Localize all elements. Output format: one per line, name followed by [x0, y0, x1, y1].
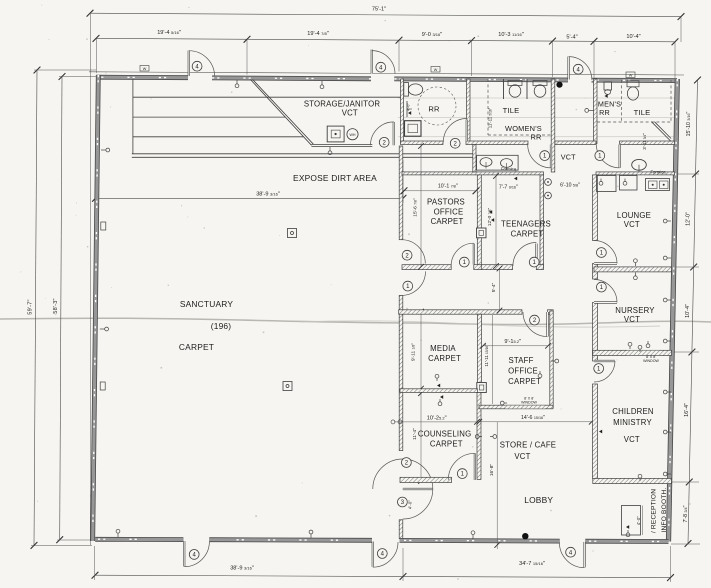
svg-text:Formica: Formica: [650, 170, 666, 175]
svg-text:10'-4": 10'-4": [685, 304, 691, 318]
svg-text:16'-4": 16'-4": [684, 403, 690, 417]
sanctuary east wall upper: [399, 146, 403, 240]
sanctuary east wall middle: [399, 295, 403, 450]
mens toilet: [627, 81, 639, 87]
right wall stems: [667, 220, 671, 222]
media-staff divider wall: [478, 314, 482, 382]
staff window symbol: [505, 404, 545, 406]
nursery-children divider wall: [593, 350, 672, 355]
svg-text:SANCTUARY: SANCTUARY: [180, 299, 234, 309]
RR west wall: [401, 79, 404, 144]
faint streak lines: [398, 97, 676, 99]
left dim connectors: [34, 69, 96, 71]
corridor south wall: [402, 172, 544, 175]
children stems: [639, 349, 641, 352]
svg-text:VCT: VCT: [561, 153, 576, 162]
drinking fountains: [545, 179, 552, 186]
corridor vertical dim 5-4: [499, 269, 501, 311]
womens lavatory counter: [477, 155, 518, 170]
lounge-nursery divider wall: [594, 267, 672, 272]
svg-text:CARPET: CARPET: [179, 342, 214, 352]
teen vertical dim 12-0 7/8: [495, 176, 497, 266]
svg-text:9'-15.2": 9'-15.2": [504, 339, 521, 345]
door 2 staff office: [546, 312, 548, 337]
storage stripe 2: [133, 116, 285, 118]
mop sink in storage: [327, 126, 344, 142]
svg-text:CARPET: CARPET: [431, 217, 464, 226]
sanctuary east wall lower: [399, 520, 403, 539]
stem symbol top wall: [321, 81, 323, 85]
svg-text:RR: RR: [599, 108, 610, 117]
lounge wall stems: [600, 179, 602, 182]
lounge counters: [597, 176, 617, 192]
storage bottom wall: [312, 143, 373, 145]
media bottom wall: [400, 389, 478, 393]
bottom extension lines: [94, 546, 96, 580]
window tag W left: [140, 66, 149, 72]
svg-text:VCT: VCT: [624, 220, 640, 229]
staff vertical dim 11-11 15/16: [492, 315, 494, 404]
children west flag: [599, 430, 602, 434]
left wall fixture 1: [101, 222, 106, 230]
left wall fixture 2: [100, 382, 105, 390]
womens tile dashed boundary: [487, 79, 489, 135]
left dimension line 58-3: [60, 77, 62, 540]
reception dim 4-0: [642, 506, 644, 536]
storage stripe 3: [133, 136, 304, 138]
svg-text:WINDOW: WINDOW: [643, 359, 659, 363]
door 1 pastors with arc: [473, 244, 475, 265]
bottom exterior wall: [95, 537, 183, 542]
svg-text:CARPET: CARPET: [508, 377, 541, 386]
top dimension chain line: [96, 38, 675, 41]
svg-text:9'-11 1/8": 9'-11 1/8": [411, 343, 417, 361]
vertical dim chain x421: [420, 146, 422, 267]
svg-text:CARPET: CARPET: [428, 354, 461, 363]
svg-text:STORAGE/JANITOR: STORAGE/JANITOR: [304, 100, 381, 109]
svg-text:CARPET: CARPET: [430, 440, 463, 449]
svg-text:(196): (196): [211, 321, 232, 331]
svg-text:CHILDREN: CHILDREN: [612, 407, 653, 416]
svg-text:RR: RR: [530, 133, 541, 142]
stem symbol platform: [329, 147, 331, 151]
svg-text:VCT: VCT: [342, 109, 358, 118]
pastors east wall lower: [477, 238, 481, 267]
lounge double sink: [646, 179, 670, 191]
staff bottom wall: [479, 405, 553, 409]
svg-text:COUNSELING: COUNSELING: [418, 430, 472, 439]
svg-text:5'-4": 5'-4": [491, 282, 497, 292]
teen flags: [489, 210, 492, 214]
svg-text:/ RECEPTION: / RECEPTION: [651, 489, 658, 533]
svg-text:12'-0": 12'-0": [686, 212, 692, 226]
RR grab bars: [406, 101, 408, 117]
reception desk: [622, 506, 641, 536]
bottom wall stems: [117, 533, 119, 537]
media keynote flags: [437, 384, 440, 388]
scan crease across middle: [0, 318, 711, 324]
corridor lavatory oval: [632, 159, 647, 170]
counseling stems: [479, 436, 482, 438]
door 1 teenagers with arc: [535, 244, 537, 265]
mens tile dashed boundary: [621, 80, 623, 122]
door 1 children: [594, 360, 615, 362]
reception stem: [627, 530, 629, 533]
door 1 mens RR: [619, 145, 621, 168]
platform edge band: [132, 153, 473, 155]
black column at mens wall: [556, 82, 562, 88]
mens west wall: [594, 79, 598, 144]
svg-text:WINDOW: WINDOW: [521, 401, 537, 405]
RR turning circle dashed: [418, 87, 456, 125]
paper specks: [231, 91, 233, 93]
RR shower square: [405, 121, 422, 137]
vestibule jamb wall: [473, 145, 476, 172]
door 1 counseling: [474, 453, 476, 480]
svg-text:7'-7 9/16": 7'-7 9/16": [499, 184, 518, 190]
svg-text:NURSERY: NURSERY: [615, 306, 655, 315]
womens west wall: [467, 79, 471, 144]
svg-text:INFO BOOTH.: INFO BOOTH.: [661, 487, 668, 532]
svg-text:MEDIA: MEDIA: [430, 344, 456, 353]
left wall stem 1: [101, 149, 106, 151]
door 2 sanctuary to pastors: [402, 240, 426, 264]
lounge-nursery-children west wall: [593, 175, 598, 241]
svg-text:4'-0": 4'-0": [407, 102, 411, 111]
nursery mid stems: [647, 341, 649, 344]
svg-text:58'-3": 58'-3": [53, 298, 59, 313]
door 4 bottom-right lobby outswing: [583, 542, 585, 567]
mens corner diagonal: [651, 122, 671, 142]
svg-text:75'-1": 75'-1": [372, 7, 386, 13]
counseling bottom wall: [400, 477, 452, 482]
store vertical dim 16-8: [496, 422, 498, 549]
column media wall: [477, 383, 487, 393]
top exterior wall: [96, 75, 188, 80]
mens wall stem: [589, 109, 594, 111]
door 1 sanctuary to hall: [402, 271, 426, 295]
svg-text:15'-6 7/8": 15'-6 7/8": [412, 198, 418, 217]
svg-text:10'-4": 10'-4": [626, 34, 640, 40]
svg-text:WH: WH: [350, 133, 356, 137]
svg-text:TILE: TILE: [503, 106, 520, 115]
sanctuary column 1: [288, 229, 297, 238]
womens east wall: [551, 79, 555, 172]
store west wall: [477, 393, 481, 480]
svg-text:W: W: [143, 67, 147, 71]
teen east wall: [540, 175, 544, 267]
RR toilet: [404, 83, 409, 97]
bottom dimension line: [95, 575, 671, 577]
column pastors-teen wall: [477, 228, 487, 238]
left wall stem 2: [100, 328, 105, 330]
svg-text:STORE / CAFE: STORE / CAFE: [500, 441, 556, 450]
svg-text:MINISTRY: MINISTRY: [613, 418, 652, 427]
door 2 RR with arc: [466, 120, 468, 142]
door 4 top-middle with arc: [371, 50, 373, 74]
right extension stubs: [672, 173, 699, 175]
svg-text:W: W: [434, 68, 438, 72]
svg-text:TEENAGERS: TEENAGERS: [501, 220, 551, 229]
door 4 top-right with arc: [567, 57, 569, 80]
top wall fascia line: [89, 72, 684, 75]
pastors-teen bottom wall: [402, 265, 451, 270]
door 2 storage with arc: [393, 122, 395, 145]
door 4 top-left with arc: [188, 51, 190, 77]
water heater WH circle: [347, 129, 358, 140]
svg-text:11'-11 5/16": 11'-11 5/16": [488, 107, 493, 128]
svg-text:11'-11 15/16": 11'-11 15/16": [484, 344, 489, 367]
door 1 womens RR: [550, 145, 552, 168]
svg-text:PASTORS: PASTORS: [427, 198, 465, 207]
top overall dimension line 75-1: [90, 13, 681, 16]
top extension lines: [89, 13, 91, 545]
pastors east wall upper: [477, 175, 481, 228]
children window symbol: [627, 349, 660, 351]
svg-text:VCT: VCT: [624, 315, 640, 324]
svg-text:EXPOSE DIRT AREA: EXPOSE DIRT AREA: [293, 173, 377, 183]
corridor north wall: [401, 141, 444, 145]
door 3 sanctuary double swing: [403, 488, 433, 490]
keynote flag near womens counter: [514, 177, 517, 181]
svg-text:CARPET: CARPET: [511, 230, 544, 239]
sanctuary interior width dim 38-9 3/16: [96, 197, 404, 199]
storage diagonal wall: [250, 80, 311, 146]
svg-text:7'-8 3/4": 7'-8 3/4": [683, 505, 689, 522]
svg-text:VCT: VCT: [624, 435, 640, 444]
svg-text:W: W: [629, 74, 633, 78]
door 4 bottom-left outswing: [183, 541, 185, 567]
svg-text:OFFICE: OFFICE: [508, 367, 538, 376]
svg-text:OFFICE: OFFICE: [434, 208, 464, 217]
svg-text:STAFF: STAFF: [508, 356, 533, 365]
staff wall stem: [551, 360, 555, 362]
womens toilet 1: [508, 81, 522, 86]
svg-text:16'-8": 16'-8": [489, 464, 495, 477]
svg-text:4'-0": 4'-0": [408, 500, 413, 510]
storage area left boundary: [132, 80, 134, 154]
staff east wall: [550, 311, 553, 408]
bottom wall window dashes: [98, 538, 155, 540]
svg-text:3'-11 3/4": 3'-11 3/4": [642, 133, 647, 150]
svg-text:RR: RR: [428, 105, 440, 114]
svg-text:LOUNGE: LOUNGE: [617, 211, 651, 220]
left dimension line 59-7: [34, 70, 37, 545]
svg-text:59'-7": 59'-7": [28, 299, 34, 314]
womens toilet 2: [533, 81, 547, 86]
svg-text:5'-4": 5'-4": [566, 35, 577, 41]
black dot on bottom wall: [522, 533, 528, 539]
svg-text:LOBBY: LOBBY: [524, 495, 553, 505]
storage stripe 1: [133, 96, 401, 98]
svg-text:4'-0": 4'-0": [636, 516, 641, 526]
womens stall partitions: [503, 79, 505, 99]
nursery top wall stems: [634, 263, 636, 267]
corridor2 south wall media top: [399, 310, 522, 314]
svg-text:Formica: Formica: [501, 167, 517, 172]
door 4 bottom-middle outswing: [372, 542, 374, 567]
window tag W middle: [431, 67, 440, 73]
children bottom wall: [593, 478, 672, 483]
window tag W right: [626, 72, 635, 78]
svg-text:TILE: TILE: [634, 108, 651, 117]
mens urinal: [604, 82, 612, 90]
svg-text:VCT: VCT: [514, 452, 530, 461]
svg-text:10'-25.2": 10'-25.2": [427, 415, 447, 421]
right dimension chain: [688, 80, 698, 544]
right exterior wall: [669, 79, 678, 542]
door 1 lounge: [594, 262, 617, 264]
door 1 nursery: [594, 301, 617, 303]
sanctuary column 2: [283, 382, 292, 391]
left exterior wall: [93, 75, 99, 541]
